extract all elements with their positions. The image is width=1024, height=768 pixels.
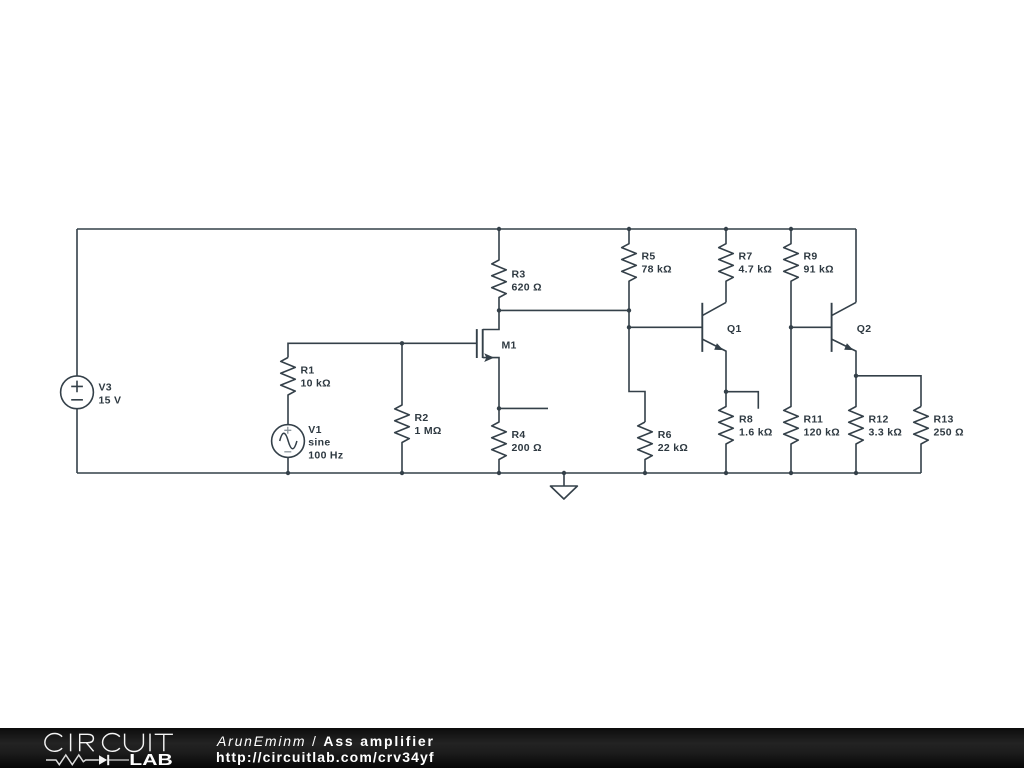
letter I: [149, 734, 151, 752]
resistor R7: [719, 229, 772, 302]
svg-text:V1: V1: [308, 424, 321, 436]
svg-text:V3: V3: [99, 381, 112, 393]
resistor R1: [281, 358, 331, 425]
wire Q2 emitter node to R13: [856, 376, 921, 407]
svg-text:200 Ω: 200 Ω: [512, 442, 542, 454]
footer bar: [0, 728, 1024, 768]
ground: [550, 473, 577, 499]
svg-text:R1: R1: [301, 365, 315, 377]
svg-text:1 MΩ: 1 MΩ: [415, 425, 442, 437]
voltage source V1 (sine): [272, 424, 344, 461]
transistor Q2 (NPN): [832, 302, 872, 375]
wire stub at M1 source node: [499, 407, 548, 409]
letter C: [45, 734, 62, 752]
wire Q1 base: [629, 326, 702, 328]
svg-text:91 kΩ: 91 kΩ: [804, 264, 834, 276]
svg-text:3.3 kΩ: 3.3 kΩ: [869, 426, 903, 438]
resistor R8: [719, 392, 773, 473]
svg-text:sine: sine: [308, 437, 330, 449]
svg-text:620 Ω: 620 Ω: [512, 281, 542, 293]
resistor R2: [395, 343, 442, 473]
wire stub at Q1 emitter node: [726, 392, 758, 409]
CircuitLab logo wordmark: [0, 728, 200, 768]
resistor R13: [914, 407, 964, 474]
svg-text:22 kΩ: 22 kΩ: [658, 442, 688, 454]
letter C: [103, 734, 120, 752]
svg-text:120 kΩ: 120 kΩ: [804, 426, 841, 438]
svg-text:R2: R2: [415, 412, 429, 424]
svg-text:10 kΩ: 10 kΩ: [301, 378, 331, 390]
wire gate row (R1/R2 to M1 gate): [288, 343, 477, 357]
svg-text:15 V: 15 V: [99, 394, 122, 406]
left rail wire (V3 branch): [76, 229, 78, 473]
wire R5 bottom to R6 (jog): [629, 310, 645, 422]
letter R: [79, 734, 93, 752]
svg-text:4.7 kΩ: 4.7 kΩ: [739, 264, 773, 276]
resistor R11: [784, 327, 840, 473]
resistor R12: [849, 376, 902, 473]
footer title text: [217, 733, 435, 749]
resistor R6: [638, 422, 688, 473]
wire M1 drain node to R5/Q1 base column: [499, 309, 629, 311]
svg-text:100 Hz: 100 Hz: [308, 449, 343, 461]
svg-text:R9: R9: [804, 251, 818, 263]
resistor R9: [784, 229, 834, 327]
wire Q2 base: [791, 326, 832, 328]
logo resistor-diode glyph: [46, 755, 99, 765]
svg-text:M1: M1: [502, 340, 517, 352]
resistor R3: [492, 229, 542, 310]
resistor R5: [622, 229, 672, 310]
svg-text:R12: R12: [869, 413, 889, 425]
transistor M1 (NMOS): [477, 310, 517, 408]
svg-text:Q2: Q2: [857, 323, 872, 335]
svg-text:Q1: Q1: [727, 323, 742, 335]
footer url text: [216, 749, 435, 765]
top power rail wire: [77, 228, 856, 230]
svg-text:R11: R11: [804, 413, 824, 425]
junction dots: [286, 227, 858, 475]
bottom ground rail wire: [77, 472, 921, 474]
svg-text:LAB: LAB: [129, 752, 172, 768]
svg-text:R5: R5: [642, 251, 656, 263]
voltage source V3: [61, 376, 122, 409]
wire top rail to Q2 collector: [855, 229, 857, 302]
svg-text:250 Ω: 250 Ω: [934, 426, 964, 438]
letter I: [70, 734, 72, 752]
wire V1 to bottom rail: [287, 457, 289, 473]
letter U: [125, 734, 144, 752]
svg-text:R8: R8: [739, 413, 753, 425]
svg-text:R13: R13: [934, 413, 954, 425]
svg-text:R4: R4: [512, 429, 526, 441]
svg-text:R3: R3: [512, 268, 526, 280]
resistor R4: [492, 408, 542, 473]
svg-text:R6: R6: [658, 429, 672, 441]
transistor Q1 (NPN): [702, 302, 741, 391]
svg-text:1.6 kΩ: 1.6 kΩ: [739, 426, 773, 438]
svg-text:78 kΩ: 78 kΩ: [642, 264, 672, 276]
letter T: [155, 734, 173, 751]
svg-text:R7: R7: [739, 251, 753, 263]
